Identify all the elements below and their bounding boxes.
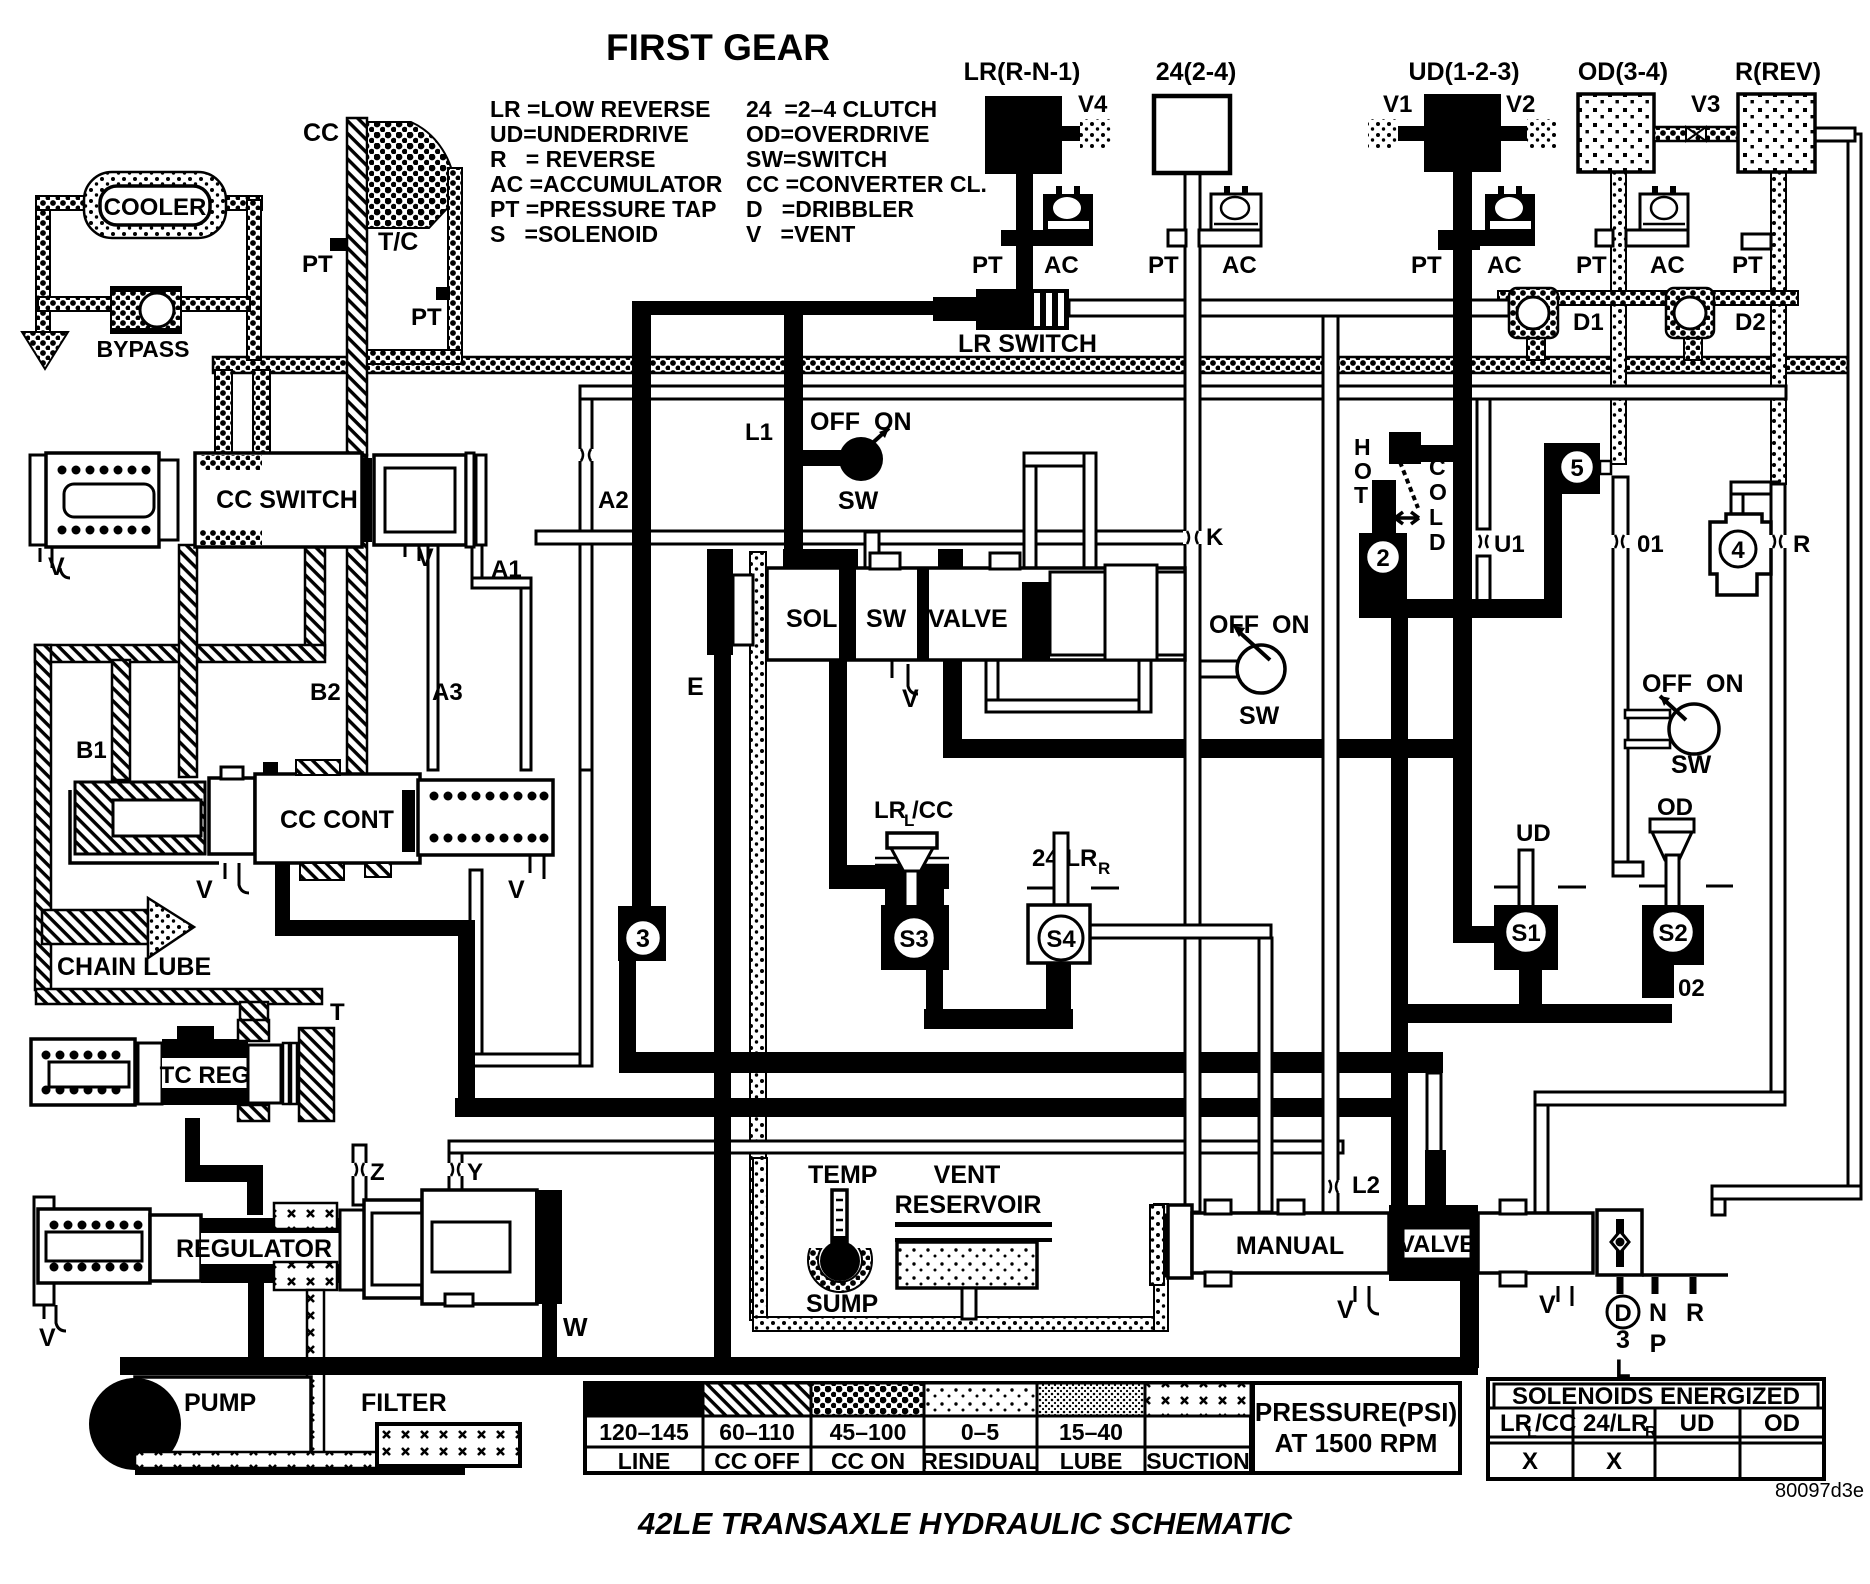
- PUMP: [89, 1377, 311, 1470]
- wire right margin bottom corner: [1712, 1186, 1861, 1199]
- svg-text:TEMP: TEMP: [808, 1161, 877, 1189]
- line black riser into manual valve: [1425, 1150, 1446, 1215]
- svg-text:P: P: [1650, 1330, 1667, 1358]
- right switch SW (OD): [1642, 670, 1744, 779]
- LR clutch square: [964, 58, 1112, 300]
- svg-text:V: V: [1539, 1291, 1556, 1319]
- svg-text:PT: PT: [1732, 252, 1763, 279]
- line CC CONT band: [275, 920, 475, 936]
- line band B S1 S2: [1391, 1004, 1672, 1023]
- wire A1 pipe vertical: [472, 545, 482, 578]
- R PT stub: [1732, 234, 1771, 279]
- bypass outlet pipe: [180, 297, 250, 311]
- cooler inlet top pipe: [36, 196, 90, 210]
- svg-text:CC OFF: CC OFF: [714, 1448, 800, 1474]
- hatched distribution band left: [35, 645, 325, 662]
- svg-text:T: T: [1354, 482, 1368, 508]
- wire A1 pipe horizontal: [472, 578, 531, 588]
- PT stub right of T/C: [436, 287, 450, 300]
- CC CONT valve: [70, 760, 553, 904]
- accumulator AC for LR (filled): [972, 186, 1093, 279]
- cooler circuit left vertical pipe: [36, 198, 50, 338]
- svg-text:X: X: [1522, 1448, 1538, 1475]
- wire 4 top corner pipe: [1731, 482, 1743, 514]
- line patch pump band over suction pipe: [303, 1357, 327, 1375]
- svg-text:LR SWITCH: LR SWITCH: [958, 330, 1097, 358]
- svg-text:A3: A3: [432, 679, 463, 706]
- line S3 corner band: [829, 865, 889, 889]
- venturi between OD and R: [1654, 91, 1738, 141]
- svg-text:PT: PT: [1576, 252, 1607, 279]
- TC REG valve: [31, 1020, 334, 1121]
- wire R pipe drop to manual valve: [1535, 1105, 1548, 1213]
- T/C converter blob: [367, 122, 455, 228]
- svg-text:L2: L2: [1352, 1172, 1380, 1199]
- svg-text:UD: UD: [1680, 1410, 1715, 1437]
- far-left hatched vertical pipe: [35, 645, 51, 990]
- svg-text:LR(R-N-1): LR(R-N-1): [964, 58, 1081, 86]
- svg-text:42LE TRANSAXLE HYDRAULIC SCHEM: 42LE TRANSAXLE HYDRAULIC SCHEMATIC: [637, 1506, 1293, 1541]
- svg-text:U1: U1: [1494, 531, 1525, 558]
- svg-text:A1: A1: [491, 556, 522, 583]
- pressure psi box: [1253, 1383, 1460, 1473]
- svg-text:S3: S3: [899, 926, 928, 953]
- suction dotted band (CC ON) across page: [213, 357, 1848, 373]
- R clutch square (dotted): [1735, 58, 1821, 172]
- manual valve left dotted elbow: [1150, 1205, 1164, 1285]
- svg-text:R(REV): R(REV): [1735, 58, 1821, 86]
- svg-text:SOLENOIDS ENERGIZED: SOLENOIDS ENERGIZED: [1512, 1383, 1800, 1410]
- wire R pipe below square: [1771, 484, 1785, 1102]
- line band below valve: [943, 739, 1472, 758]
- svg-text:O: O: [1354, 458, 1372, 484]
- legend abbreviation list column 2: [746, 96, 987, 247]
- dotted U pipe into CC SWITCH right leg: [253, 370, 270, 482]
- svg-text:LR =LOW REVERSE: LR =LOW REVERSE: [490, 96, 710, 122]
- wire A1 pipe drop: [521, 588, 531, 770]
- line CC CONT riser: [458, 920, 475, 1110]
- T/C body dotted outline bottom: [367, 350, 462, 364]
- PT stub left of T/C: [330, 238, 348, 251]
- sump bottom dotted wall: [753, 1317, 1168, 1331]
- svg-text:R: R: [1098, 859, 1110, 878]
- svg-text:VALVE: VALVE: [928, 605, 1008, 633]
- svg-text:AC: AC: [1222, 252, 1257, 279]
- line band CC CONT to LR: [455, 1098, 1408, 1117]
- svg-text:02: 02: [1678, 975, 1705, 1002]
- svg-text:PT: PT: [302, 251, 333, 278]
- svg-text:SW: SW: [838, 487, 879, 515]
- svg-text:E: E: [687, 673, 704, 701]
- selector D 3 L N P R: [1607, 1277, 1704, 1383]
- line S3 drop: [926, 965, 943, 1013]
- svg-text:/CC: /CC: [912, 797, 953, 824]
- svg-text:V1: V1: [1383, 91, 1412, 118]
- svg-text:UD=UNDERDRIVE: UD=UNDERDRIVE: [490, 121, 689, 147]
- wire SW port pipe: [865, 532, 879, 570]
- svg-text:/CC: /CC: [1535, 1410, 1576, 1437]
- wire right margin line: [1848, 134, 1861, 1191]
- svg-text:3: 3: [1616, 1326, 1630, 1354]
- wire switch stubs right SW: [1625, 710, 1670, 718]
- svg-text:60–110: 60–110: [719, 1419, 794, 1445]
- hatched spool pipe between CC SWITCH and CC CONT: [179, 545, 197, 777]
- svg-text:R: R: [1686, 1299, 1704, 1327]
- svg-text:AC: AC: [1487, 252, 1522, 279]
- accumulator AC for 24 (outline): [1148, 186, 1261, 279]
- svg-text:N: N: [1649, 1299, 1667, 1327]
- wire valve upper loop left: [1024, 453, 1036, 568]
- svg-text:V4: V4: [1078, 91, 1108, 118]
- svg-text:Z: Z: [370, 1159, 385, 1186]
- svg-text:PT: PT: [972, 252, 1003, 279]
- svg-text:D =DRIBBLER: D =DRIBBLER: [746, 196, 914, 222]
- svg-text:PT: PT: [1148, 252, 1179, 279]
- svg-text:V: V: [196, 876, 213, 904]
- 24 clutch square: [1154, 58, 1236, 173]
- svg-text:D1: D1: [1573, 309, 1604, 336]
- svg-text:VENT: VENT: [934, 1161, 1001, 1189]
- solenoids energized table: [1488, 1379, 1824, 1479]
- svg-text:R: R: [1645, 1424, 1657, 1441]
- long stippled pipe from solenoid valve down to sump: [750, 552, 766, 1320]
- svg-text:T: T: [330, 999, 345, 1026]
- svg-text:LUBE: LUBE: [1060, 1448, 1123, 1474]
- line S1 drop: [1519, 968, 1542, 1008]
- svg-text:SOL: SOL: [786, 605, 837, 633]
- B2 hatched pipe below T/C through CC SWITCH: [347, 455, 367, 775]
- svg-text:REGULATOR: REGULATOR: [176, 1235, 332, 1263]
- svg-text:B2: B2: [310, 679, 341, 706]
- line LR main vertical: [1391, 615, 1408, 1215]
- D2 bottom stub: [1684, 338, 1702, 360]
- MANUAL valve: [1168, 1200, 1728, 1324]
- svg-text:VALVE: VALVE: [1399, 1231, 1475, 1258]
- circle 2 junction: [1359, 533, 1407, 618]
- wire right margin drop to valve: [1712, 1199, 1725, 1215]
- line regulator drop: [248, 1283, 264, 1361]
- svg-text:OFF: OFF: [1209, 611, 1259, 639]
- svg-text:LINE: LINE: [618, 1448, 670, 1474]
- svg-text:PUMP: PUMP: [184, 1389, 256, 1417]
- line UD to S1 connector: [1456, 926, 1504, 943]
- svg-text:B1: B1: [76, 737, 107, 764]
- bypass arrow down-left: [22, 332, 68, 369]
- svg-text:4: 4: [1731, 537, 1745, 564]
- cooler: [84, 172, 226, 238]
- svg-text:UD(1-2-3): UD(1-2-3): [1408, 58, 1519, 86]
- D1 bottom stub: [1527, 338, 1545, 360]
- line band circle3: [619, 1052, 1443, 1073]
- wire L2 pipe from LR switch line to manual valve: [1323, 316, 1338, 1213]
- line E vertical: [714, 549, 731, 1364]
- T hatched corner to TC REG: [240, 1002, 268, 1030]
- svg-text:SUCTION: SUCTION: [1146, 1448, 1250, 1474]
- solenoid valve body SOL SW VALVE: [687, 549, 1185, 713]
- cooler outlet pipe to right: [222, 196, 262, 210]
- svg-text:L: L: [1429, 504, 1443, 530]
- svg-text:FIRST GEAR: FIRST GEAR: [606, 27, 830, 68]
- svg-text:MANUAL: MANUAL: [1236, 1232, 1344, 1260]
- sump right dotted wall: [1154, 1204, 1168, 1331]
- line VALVE drop: [943, 655, 962, 751]
- svg-text:SW=SWITCH: SW=SWITCH: [746, 146, 887, 172]
- line 5 drop: [1544, 490, 1562, 608]
- wire CC CONT right loop left leg: [470, 870, 482, 1066]
- svg-text:PT =PRESSURE TAP: PT =PRESSURE TAP: [490, 196, 716, 222]
- LR SWITCH: [933, 289, 1097, 358]
- svg-text:COOLER: COOLER: [104, 194, 207, 221]
- svg-text:V3: V3: [1691, 91, 1720, 118]
- svg-text:O: O: [1429, 479, 1447, 505]
- svg-text:V2: V2: [1506, 91, 1535, 118]
- wire long horizontal pipe P2: [536, 531, 1186, 544]
- wire CC CONT right leg: [580, 770, 592, 1066]
- wire long horizontal pipe P1: [580, 386, 1786, 399]
- solenoid S1 UD (on): [1494, 820, 1586, 970]
- svg-text:OD: OD: [1657, 794, 1693, 821]
- svg-text:K: K: [1206, 524, 1224, 551]
- wire valve upper loop top: [1024, 453, 1096, 466]
- wire pipe from band to manual valve: [1427, 1073, 1441, 1213]
- line main pump band: [120, 1357, 1478, 1375]
- svg-text:45–100: 45–100: [830, 1419, 907, 1445]
- pipe break marks at labels: [351, 449, 1787, 1193]
- svg-text:24/LR: 24/LR: [1583, 1410, 1648, 1437]
- svg-text:S1: S1: [1511, 920, 1540, 947]
- wire R pipe corner left: [1535, 1092, 1785, 1105]
- wire valve upper loop right: [1084, 453, 1096, 568]
- TEMP thermometer: [800, 1161, 880, 1318]
- svg-text:ON: ON: [1706, 670, 1744, 698]
- svg-text:RESERVOIR: RESERVOIR: [895, 1191, 1042, 1219]
- pressure legend table: [585, 1383, 1251, 1473]
- thermal valve HOT COLD: [1354, 432, 1472, 555]
- svg-text:120–145: 120–145: [599, 1419, 689, 1445]
- line TC REG drop: [185, 1118, 200, 1173]
- svg-text:CC ON: CC ON: [831, 1448, 905, 1474]
- svg-text:Y: Y: [467, 1159, 483, 1186]
- svg-text:PRESSURE(PSI): PRESSURE(PSI): [1255, 1397, 1457, 1427]
- line CC CONT drop: [275, 850, 290, 935]
- line band A S3 S4: [924, 1009, 1073, 1029]
- B1 hatched drop to CC CONT: [112, 660, 130, 780]
- line 2 band: [1372, 599, 1562, 618]
- svg-text:S2: S2: [1658, 920, 1687, 947]
- wire Z drop pipe: [353, 1145, 366, 1205]
- wire 01 wrap to S2 arm: [1613, 862, 1643, 876]
- chain lube hatched feed band: [36, 989, 322, 1004]
- svg-text:X: X: [1606, 1448, 1622, 1475]
- wire Y drop into regulator: [449, 1153, 462, 1210]
- CC SWITCH valve: [30, 453, 486, 581]
- svg-text:AC: AC: [1650, 252, 1685, 279]
- wire LR switch to dribblers line: [1069, 300, 1509, 316]
- svg-text:D2: D2: [1735, 309, 1766, 336]
- svg-text:FILTER: FILTER: [361, 1389, 447, 1417]
- T/C body dotted outline right side: [448, 168, 462, 364]
- svg-text:OD=OVERDRIVE: OD=OVERDRIVE: [746, 121, 929, 147]
- svg-text:V: V: [1337, 1296, 1354, 1324]
- VENT RESERVOIR: [895, 1161, 1191, 1319]
- svg-text:CC =CONVERTER CL.: CC =CONVERTER CL.: [746, 171, 987, 197]
- svg-text:H: H: [1354, 434, 1371, 460]
- line UD main vertical: [1453, 170, 1472, 943]
- svg-text:PT: PT: [411, 304, 442, 331]
- svg-text:AT 1500 RPM: AT 1500 RPM: [1275, 1428, 1438, 1458]
- svg-text:D: D: [1614, 1300, 1631, 1327]
- svg-text:T/C: T/C: [378, 228, 418, 256]
- line TC REG riser: [247, 1165, 263, 1215]
- suction bottom band: [135, 1452, 377, 1468]
- svg-text:SW: SW: [866, 605, 907, 633]
- svg-text:LR: LR: [874, 797, 906, 824]
- wire Y long pipe: [449, 1141, 1343, 1153]
- cooler right vertical pipe down: [247, 200, 261, 360]
- wire 01 pipe below 5: [1613, 477, 1628, 867]
- bypass: [97, 286, 190, 362]
- svg-text:R = REVERSE: R = REVERSE: [490, 146, 656, 172]
- svg-text:2: 2: [1376, 545, 1389, 572]
- svg-text:V: V: [39, 1324, 56, 1352]
- solenoid S4 24/LRR (off): [1027, 833, 1119, 963]
- svg-text:S =SOLENOID: S =SOLENOID: [490, 221, 658, 247]
- svg-text:V =VENT: V =VENT: [746, 221, 855, 247]
- svg-text:SW: SW: [1239, 702, 1280, 730]
- wire K pipe from 24 clutch to manual valve: [1185, 172, 1200, 1212]
- accumulator AC for OD (outline): [1576, 186, 1688, 279]
- R dotted line down: [1771, 172, 1786, 484]
- wire valve lower loop: [986, 660, 998, 712]
- dribbler D1: [1509, 288, 1604, 338]
- svg-text:R: R: [1793, 531, 1810, 558]
- switch SW on K line: [1200, 611, 1310, 730]
- chain lube arrow: [42, 910, 148, 944]
- svg-text:D: D: [1429, 529, 1446, 555]
- line SOL drop to S3: [829, 655, 847, 869]
- OD accumulator dotted line down (01 feed): [1611, 172, 1626, 464]
- circle 4 check valve: [1710, 514, 1771, 595]
- svg-text:15–40: 15–40: [1059, 1419, 1123, 1445]
- wire R square to margin: [1815, 128, 1855, 141]
- svg-text:24(2-4): 24(2-4): [1156, 58, 1237, 86]
- svg-text:BYPASS: BYPASS: [97, 336, 190, 362]
- L1 switch SW: [745, 408, 912, 515]
- line TC REG band: [185, 1165, 263, 1182]
- wire CC CONT right loop bottom: [470, 1054, 592, 1066]
- svg-text:A2: A2: [598, 487, 629, 514]
- line manual valve drop: [1460, 1273, 1479, 1368]
- OD clutch square (dotted): [1578, 58, 1668, 172]
- svg-text:C: C: [1429, 454, 1446, 480]
- svg-text:V: V: [508, 876, 525, 904]
- bypass branch pipe: [38, 297, 112, 311]
- circle 5 junction: [1544, 443, 1611, 494]
- svg-text:RESIDUAL: RESIDUAL: [921, 1448, 1039, 1474]
- svg-text:OD(3-4): OD(3-4): [1578, 58, 1668, 86]
- svg-text:24 =2–4 CLUTCH: 24 =2–4 CLUTCH: [746, 96, 937, 122]
- sump left dotted wall: [753, 1158, 767, 1330]
- REGULATOR valve: [34, 1190, 562, 1460]
- svg-text:OFF: OFF: [1642, 670, 1692, 698]
- wire A2 drop pipe: [580, 399, 592, 770]
- legend abbreviation list column 1: [490, 96, 723, 247]
- accumulator AC for UD (filled): [1411, 186, 1535, 279]
- svg-text:S4: S4: [1046, 926, 1076, 953]
- svg-text:5: 5: [1570, 455, 1583, 482]
- svg-text:PT: PT: [1411, 252, 1442, 279]
- svg-text:SUMP: SUMP: [806, 1290, 878, 1318]
- wire U1 pipe: [1477, 399, 1490, 529]
- svg-text:ON: ON: [1272, 611, 1310, 639]
- svg-text:AC =ACCUMULATOR: AC =ACCUMULATOR: [490, 171, 723, 197]
- wire S4 pipe right then down: [1089, 925, 1271, 938]
- svg-text:TC REG: TC REG: [160, 1062, 251, 1089]
- line top band LR switch: [632, 301, 979, 315]
- dotted U pipe into CC SWITCH left leg: [215, 370, 232, 482]
- svg-text:01: 01: [1637, 531, 1664, 558]
- svg-text:L1: L1: [745, 419, 773, 446]
- dribbler line D1-D2 dotted: [1498, 291, 1798, 305]
- FILTER: [361, 1389, 520, 1466]
- hatched drop pipe CC SWITCH to distribution: [305, 547, 325, 655]
- svg-text:80097d3e: 80097d3e: [1775, 1480, 1864, 1502]
- T/C hatched supply pipe (CC): [347, 118, 367, 455]
- svg-text:UD: UD: [1516, 820, 1551, 847]
- solenoid S3 LRL/CC: [874, 797, 953, 970]
- line circle3 connector: [619, 955, 636, 1065]
- solenoid S2 OD (on): [1639, 794, 1733, 1002]
- svg-text:CC CONT: CC CONT: [280, 806, 394, 834]
- dribbler D2: [1666, 288, 1766, 338]
- svg-text:OD: OD: [1764, 1410, 1800, 1437]
- svg-text:0–5: 0–5: [961, 1419, 1000, 1445]
- UD clutch square: [1368, 58, 1557, 172]
- svg-text:3: 3: [636, 925, 650, 953]
- line S4 drop: [1046, 960, 1071, 1022]
- line 3 vertical: [632, 301, 651, 911]
- svg-text:CC SWITCH: CC SWITCH: [216, 486, 358, 514]
- svg-text:SW: SW: [1671, 751, 1712, 779]
- line L1 vertical: [784, 301, 803, 569]
- svg-text:CHAIN LUBE: CHAIN LUBE: [57, 953, 211, 981]
- circle 3 junction: [618, 906, 666, 961]
- line SW1 stub: [796, 450, 844, 466]
- svg-text:AC: AC: [1044, 252, 1079, 279]
- svg-text:W: W: [563, 1312, 588, 1342]
- wire A3 pipe: [428, 545, 438, 770]
- svg-text:OFF: OFF: [810, 408, 860, 436]
- line W drop: [542, 1300, 557, 1360]
- svg-text:CC: CC: [303, 119, 339, 147]
